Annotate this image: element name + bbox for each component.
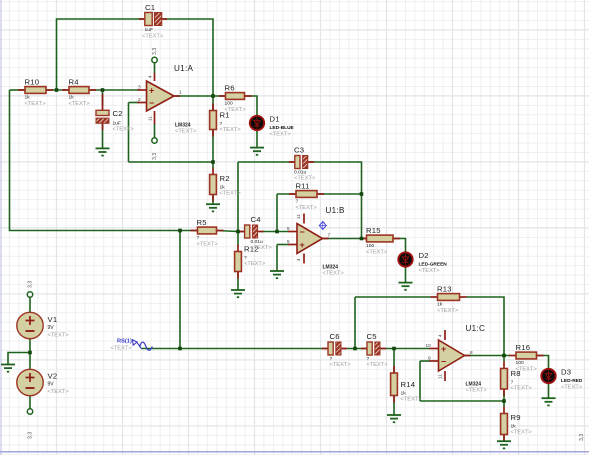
wire RS stub to C6 (142, 348, 331, 350)
ground D3 (542, 398, 556, 405)
resistor R2 (210, 168, 242, 202)
svg-text:R8: R8 (511, 369, 521, 378)
resistor R9 (501, 407, 533, 442)
wire node to pin9 jog (420, 400, 504, 402)
LED D2 LED-GREEN (398, 251, 447, 274)
svg-text:100: 100 (366, 243, 374, 249)
battery V2 9V (17, 369, 70, 395)
resistor R4 (62, 78, 96, 107)
svg-text:3,3: 3,3 (152, 153, 158, 160)
wire out3 to R8 (503, 356, 505, 362)
wire R11 right (317, 193, 362, 195)
wire junction to R14 (393, 349, 395, 373)
resistor R16 (509, 343, 544, 372)
wire pin4 to terminal (154, 63, 156, 73)
svg-text:−: − (441, 356, 446, 366)
wire R14 to ground (393, 396, 395, 415)
resistor R13 (431, 285, 467, 314)
resistor R8 (501, 362, 533, 397)
wire R12 to ground (237, 272, 239, 290)
svg-text:3: 3 (138, 85, 141, 90)
wire C4 to pin6 (261, 231, 289, 233)
svg-text:<TEXT>: <TEXT> (48, 333, 70, 339)
generator probe RS(1) (111, 339, 153, 352)
svg-text:4: 4 (148, 75, 153, 78)
svg-text:<TEXT>: <TEXT> (142, 34, 164, 40)
wire C2 to ground (102, 124, 104, 148)
svg-text:1k: 1k (69, 95, 75, 101)
wire C5 to U1:C pin10 (380, 348, 430, 350)
svg-text:R10: R10 (25, 78, 40, 87)
ground R12 (231, 290, 245, 297)
wire R6 to D1 (245, 96, 258, 116)
svg-text:4: 4 (296, 258, 301, 261)
svg-text:0.01u: 0.01u (294, 170, 307, 176)
wire C6 to C5 (341, 348, 369, 350)
svg-text:C2: C2 (113, 109, 123, 118)
svg-text:LED-GREEN: LED-GREEN (419, 262, 448, 268)
node U1:A output (211, 94, 215, 98)
wire R11 left (277, 193, 296, 195)
capacitor C4 (239, 215, 273, 251)
node RS/bus/C6 (178, 347, 182, 351)
svg-text:<TEXT>: <TEXT> (330, 362, 352, 368)
svg-text:4: 4 (438, 334, 443, 337)
ground D1 (250, 148, 264, 155)
svg-text:1uF: 1uF (145, 27, 153, 33)
svg-text:<TEXT>: <TEXT> (113, 127, 135, 133)
wire R5 to junction (217, 231, 239, 232)
wire R9 to ground (503, 435, 505, 442)
wire R4 node to C2 (102, 90, 104, 106)
capacitor C2 (96, 94, 134, 133)
power terminal U1:A pin11 rail (152, 138, 157, 143)
svg-text:<TEXT>: <TEXT> (220, 127, 242, 133)
power terminal V1 plus rail (27, 292, 32, 297)
ground R14 (387, 415, 401, 422)
wire U1:B out to R15 (323, 238, 367, 240)
wire U1:C out to R16 (465, 355, 510, 357)
svg-text:C6: C6 (330, 332, 340, 341)
node bus/R5 (178, 229, 182, 233)
svg-text:V1: V1 (48, 315, 58, 324)
wire node to pin2 jog (129, 161, 214, 163)
ground D2 (399, 283, 413, 290)
svg-text:3,3: 3,3 (28, 281, 34, 288)
svg-text:1: 1 (179, 90, 182, 95)
wire R10 to R4 (46, 89, 69, 91)
wire R13 right to out3 (467, 297, 505, 356)
svg-text:R1: R1 (220, 111, 230, 120)
svg-text:C1: C1 (145, 3, 155, 12)
svg-text:6: 6 (287, 226, 290, 231)
svg-text:3,3: 3,3 (579, 434, 585, 441)
wire feedback up to C1 (57, 19, 146, 90)
node C5/R14/pin10 (392, 347, 396, 351)
svg-text:R9: R9 (511, 413, 521, 422)
svg-text:C3: C3 (294, 146, 304, 155)
svg-text:8: 8 (470, 350, 473, 355)
wire pin5 to ground (276, 245, 278, 271)
svg-text:?: ? (220, 121, 223, 127)
svg-text:?: ? (244, 255, 247, 261)
svg-text:R11: R11 (296, 182, 310, 191)
wire R13 feedback down (354, 297, 356, 349)
svg-text:1k: 1k (511, 424, 517, 430)
svg-text:9V: 9V (48, 325, 55, 331)
wire V2 to terminal (29, 396, 31, 409)
svg-text:−: − (149, 98, 154, 108)
svg-text:D1: D1 (270, 115, 280, 124)
node R4/C2/pin3 (101, 88, 105, 92)
svg-text:<TEXT>: <TEXT> (175, 128, 197, 134)
node R5/C4/R12/C3 (236, 230, 240, 234)
wire C3 net left (238, 161, 295, 163)
ground V supply (1, 365, 15, 372)
svg-text:?: ? (296, 199, 299, 205)
wire R8 to node (503, 390, 505, 402)
svg-text:C4: C4 (251, 215, 262, 224)
wire R11 jog down (276, 194, 278, 232)
svg-text:U1:B: U1:B (326, 206, 345, 215)
svg-text:−: − (300, 227, 305, 237)
svg-text:R5: R5 (197, 218, 207, 227)
svg-text:<TEXT>: <TEXT> (511, 386, 533, 392)
svg-text:U1:C: U1:C (466, 324, 486, 333)
wire R13 left wire (355, 296, 431, 298)
wire pin9 jog vertical (419, 361, 421, 401)
op-amp U1:A LM324 (138, 64, 197, 134)
op-amp U1:C LM324 (426, 324, 488, 393)
svg-text:<TEXT>: <TEXT> (270, 132, 292, 138)
wire R15 to D2 (394, 239, 406, 253)
node U1:B output (360, 237, 364, 241)
node R8/R9/pin9 (502, 399, 506, 403)
svg-text:<TEXT>: <TEXT> (48, 389, 70, 395)
wire C3 to out2 vertical (308, 162, 361, 239)
wire C3 net down (237, 162, 239, 232)
wire pin2 jog vertical (128, 103, 130, 163)
node C6/R13/C5 (353, 347, 357, 351)
svg-text:2: 2 (138, 97, 141, 102)
svg-text:D3: D3 (561, 368, 571, 377)
svg-text:LED-RED: LED-RED (561, 378, 583, 384)
svg-text:<TEXT>: <TEXT> (401, 397, 423, 403)
svg-text:<TEXT>: <TEXT> (511, 430, 533, 436)
node R1/R2/pin2 (211, 160, 215, 164)
LED D1 LED-BLUE (250, 115, 295, 138)
capacitor C3 (289, 146, 316, 182)
svg-text:<TEXT>: <TEXT> (437, 308, 459, 314)
capacitor C1 (139, 3, 167, 40)
ground C2 (96, 148, 110, 155)
svg-text:R2: R2 (220, 174, 230, 183)
svg-text:1k: 1k (437, 302, 443, 308)
svg-text:R15: R15 (366, 226, 381, 235)
svg-text:11: 11 (296, 214, 301, 219)
wire R1 to node to R2 (212, 130, 214, 169)
svg-text:<TEXT>: <TEXT> (561, 385, 583, 391)
node V1/V2 split (28, 351, 32, 355)
wire pin2 wire (129, 102, 140, 104)
svg-text:?: ? (367, 356, 370, 362)
svg-text:1k: 1k (220, 185, 226, 191)
wire left bus to R10 (10, 89, 26, 91)
svg-text:<TEXT>: <TEXT> (294, 176, 316, 182)
wire U1:A out to R6 (174, 95, 226, 97)
svg-text:<TEXT>: <TEXT> (466, 387, 488, 393)
wire D1 to ground (256, 130, 258, 148)
wire V1 to V2 (29, 339, 31, 370)
svg-text:<TEXT>: <TEXT> (197, 241, 219, 247)
svg-text:C5: C5 (367, 332, 377, 341)
resistor R6 (219, 84, 252, 113)
wire R16 to D3 (538, 356, 549, 370)
svg-text:9: 9 (428, 356, 431, 361)
wire left bus down to R5 (10, 90, 198, 231)
op-amp U1:B LM324 (287, 206, 345, 276)
svg-text:D2: D2 (419, 251, 429, 260)
svg-text:<TEXT>: <TEXT> (25, 101, 47, 107)
svg-text:<TEXT>: <TEXT> (251, 245, 273, 251)
wire pin5 wire (277, 244, 289, 246)
resistor R14 (391, 366, 423, 403)
wire junction to R12 (237, 232, 239, 246)
resistor R5 (191, 218, 224, 247)
capacitor C5 (361, 332, 388, 368)
resistor R15 (360, 226, 401, 255)
wire split node to ground (8, 353, 30, 365)
svg-text:R13: R13 (437, 285, 452, 294)
ground R2 (206, 204, 220, 211)
svg-text:100: 100 (225, 101, 233, 107)
svg-text:<TEXT>: <TEXT> (419, 268, 441, 274)
svg-text:?: ? (197, 235, 200, 241)
svg-text:5: 5 (287, 239, 290, 244)
resistor R1 (210, 104, 242, 137)
svg-text:<TEXT>: <TEXT> (296, 205, 318, 211)
node U1:C output (502, 354, 506, 358)
capacitor C6 (322, 332, 351, 368)
svg-text:LED-BLUE: LED-BLUE (270, 125, 295, 131)
wire C1 to output node (162, 19, 213, 96)
svg-text:3,3: 3,3 (152, 48, 158, 55)
node R10/R4/C1 (55, 88, 59, 92)
svg-text:0.01u: 0.01u (251, 239, 264, 245)
wire node to R1 (212, 96, 214, 111)
LED D3 LED-RED (541, 368, 583, 391)
svg-text:10: 10 (426, 343, 432, 348)
resistor R11 (289, 182, 324, 211)
svg-text:?: ? (330, 356, 333, 362)
origin marker U1:B (319, 222, 326, 230)
node C4/R11/pin6 (275, 230, 279, 234)
wire R4 to U1:A pin3 (89, 89, 139, 91)
battery V1 9V (17, 312, 70, 338)
wire junction to C4 (238, 231, 244, 233)
svg-text:U1:A: U1:A (174, 64, 193, 73)
svg-text:+: + (300, 240, 305, 250)
svg-text:<TEXT>: <TEXT> (69, 101, 91, 107)
resistor R12 (235, 245, 266, 279)
svg-text:R4: R4 (69, 78, 80, 87)
svg-text:<TEXT>: <TEXT> (323, 270, 345, 276)
wire D3 to ground (548, 383, 550, 398)
svg-text:11: 11 (438, 374, 443, 379)
wire D2 to ground (405, 267, 407, 283)
svg-text:+: + (441, 344, 446, 354)
svg-text:7: 7 (328, 233, 331, 238)
svg-text:RS(1): RS(1) (117, 339, 132, 345)
wire node to R9 (503, 401, 505, 407)
svg-text:100: 100 (516, 360, 524, 366)
svg-text:<TEXT>: <TEXT> (220, 191, 242, 197)
svg-text:<TEXT>: <TEXT> (111, 345, 133, 351)
node R11/C3 right (360, 192, 364, 196)
power terminal U1:A pin4 +3.3V (152, 57, 157, 62)
svg-text:9V: 9V (48, 382, 55, 388)
wire terminal to V1 (29, 297, 31, 312)
wire pin9 wire (420, 360, 430, 362)
resistor R10 (18, 78, 53, 107)
wire pin11 to terminal (154, 124, 156, 138)
svg-text:+: + (149, 85, 154, 95)
svg-text:R16: R16 (516, 343, 531, 352)
ground U1:B pin5 (270, 271, 284, 278)
svg-text:<TEXT>: <TEXT> (367, 362, 389, 368)
svg-text:?: ? (511, 380, 514, 386)
ground R9 (497, 441, 511, 448)
wire R2 to ground (212, 195, 214, 205)
svg-text:<TEXT>: <TEXT> (366, 249, 388, 255)
svg-text:1k: 1k (25, 95, 31, 101)
svg-text:3,3: 3,3 (28, 432, 34, 439)
svg-text:11: 11 (148, 116, 153, 121)
svg-text:1k: 1k (401, 391, 407, 397)
power terminal V2 minus rail (27, 409, 32, 414)
svg-text:R14: R14 (401, 380, 416, 389)
svg-text:<TEXT>: <TEXT> (244, 261, 266, 267)
svg-text:V2: V2 (48, 372, 58, 381)
wire bus down to C6 row (179, 231, 181, 349)
svg-text:R6: R6 (225, 84, 235, 93)
